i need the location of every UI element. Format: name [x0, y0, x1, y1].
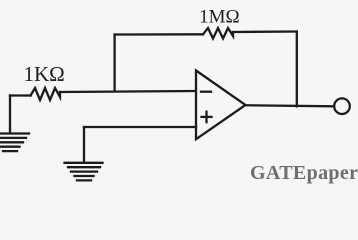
- wire: R1 to inverting input: [60, 91, 195, 92]
- svg-text:1MΩ: 1MΩ: [199, 6, 240, 27]
- ground (input terminal): [0, 96, 29, 152]
- wire: feedback down vertical: [296, 32, 298, 107]
- op-amp U1: [196, 71, 246, 140]
- svg-text:GATEpaper: GATEpaper: [250, 162, 358, 184]
- resistor R1 (1K): [31, 88, 61, 100]
- ground (non-inverting input): [65, 163, 103, 181]
- wire: output: [246, 105, 334, 106]
- svg-text:1KΩ: 1KΩ: [24, 62, 65, 86]
- resistor R2 (1M): [203, 28, 233, 39]
- wire: input stub: [10, 94, 31, 96]
- output terminal circle: [334, 98, 350, 114]
- wire: feedback tap vertical: [113, 35, 115, 92]
- non-inverting input marker (+): [202, 112, 212, 123]
- inverting input marker (-): [201, 91, 211, 93]
- wire: non-inverting input horizontal: [84, 126, 196, 128]
- wire: top feedback right segment: [233, 30, 297, 33]
- wire: top feedback left segment: [115, 33, 203, 36]
- wire: non-inverting ground vertical: [83, 127, 85, 162]
